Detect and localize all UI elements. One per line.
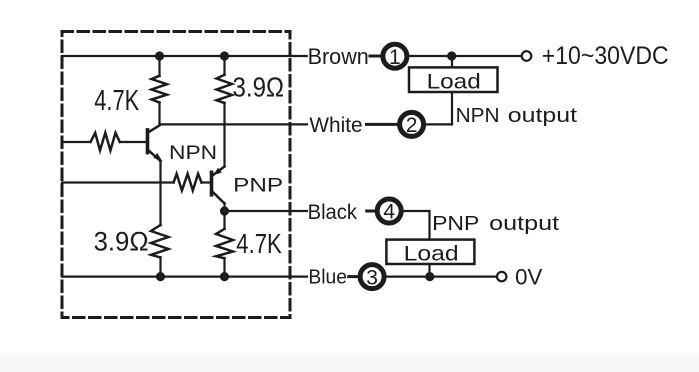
node PNP collector / black	[220, 206, 229, 215]
wire NPN base with resistor	[62, 141, 146, 143]
svg-text:PNP: PNP	[233, 174, 283, 196]
wire Load1 bottom to NPN output corner	[451, 92, 453, 124]
resistor PNP base zigzag	[174, 174, 202, 191]
wire circle 1 to +V terminal	[409, 55, 521, 57]
terminal circled 4	[377, 199, 401, 224]
svg-text:output: output	[489, 212, 559, 235]
svg-text:White: White	[309, 114, 362, 137]
wire NPN emitter down to lower 3.9ohm	[159, 161, 161, 277]
Load box 2	[386, 240, 474, 264]
resistor R3 3.9ohm lower zigzag	[151, 225, 169, 258]
wire black label to circle 4	[367, 210, 376, 213]
wire junction to Load1 top	[451, 56, 453, 67]
svg-text:Load: Load	[404, 241, 459, 265]
svg-text:Black: Black	[308, 200, 358, 224]
resistor R1 4.7K zigzag	[152, 76, 168, 103]
svg-text:Brown: Brown	[308, 44, 369, 69]
PNP emitter arrowhead (points toward base)	[213, 168, 222, 176]
wire circle 3 to 0V terminal	[386, 276, 496, 278]
transistor Q2 PNP	[210, 172, 214, 195]
node blue / load2	[425, 272, 434, 281]
wire 3.9ohm top leads	[223, 56, 225, 167]
wire white label to circle 2	[367, 123, 398, 126]
svg-text:4: 4	[383, 201, 395, 224]
svg-text:NPN: NPN	[456, 104, 500, 127]
svg-text:3.9Ω: 3.9Ω	[233, 72, 285, 103]
dashed sensor boundary box	[62, 32, 290, 318]
wire 4.7K top leads	[158, 56, 160, 124]
terminal circled 1	[383, 44, 407, 69]
wire black rail	[225, 210, 308, 212]
wire circle 2 to NPN load corner	[426, 123, 452, 125]
svg-text:output: output	[508, 104, 578, 127]
node +V rail / load1	[447, 51, 456, 60]
svg-text:3.9Ω: 3.9Ω	[94, 227, 149, 257]
wire blue rail	[62, 276, 307, 278]
transistor Q1 NPN	[146, 130, 150, 153]
svg-text:4.7K: 4.7K	[94, 85, 139, 117]
terminal +V open circle	[522, 51, 532, 61]
node top rail / R1	[155, 51, 164, 60]
wire brown label to circle 1	[370, 55, 382, 58]
svg-text:4.7K: 4.7K	[236, 228, 282, 259]
node blue rail / R4	[220, 272, 229, 281]
terminal circled 3	[360, 265, 384, 290]
resistor R2 3.9ohm zigzag	[217, 75, 233, 103]
wire circle 4 to corner and down to Load2	[403, 211, 429, 240]
svg-text:2: 2	[406, 114, 418, 137]
NPN emitter arrowhead	[153, 153, 162, 161]
svg-text:3: 3	[366, 266, 378, 289]
svg-text:+10~30VDC: +10~30VDC	[542, 42, 669, 70]
node blue rail / R3	[156, 272, 165, 281]
wire white rail	[160, 123, 308, 125]
Load box 1	[409, 67, 498, 92]
wire Load2 bottom to blue rail	[428, 264, 430, 277]
svg-text:Load: Load	[427, 70, 481, 94]
svg-text:1: 1	[389, 46, 401, 69]
terminal 0V open circle	[497, 272, 506, 281]
node top rail / R2	[220, 51, 229, 60]
wire blue label to circle 3	[349, 275, 359, 278]
wire PNP collector down through 4.7K to blue rail	[223, 203, 225, 277]
svg-text:NPN: NPN	[169, 142, 217, 164]
resistor R4 4.7K lower zigzag	[216, 229, 233, 258]
wire PNP base with resistor	[62, 181, 210, 183]
svg-text:0V: 0V	[515, 265, 543, 290]
terminal circled 2	[400, 112, 424, 137]
svg-text:PNP: PNP	[432, 212, 479, 235]
wire top +V rail	[62, 55, 307, 57]
svg-text:Blue: Blue	[308, 266, 347, 289]
resistor NPN base zigzag	[91, 133, 120, 151]
